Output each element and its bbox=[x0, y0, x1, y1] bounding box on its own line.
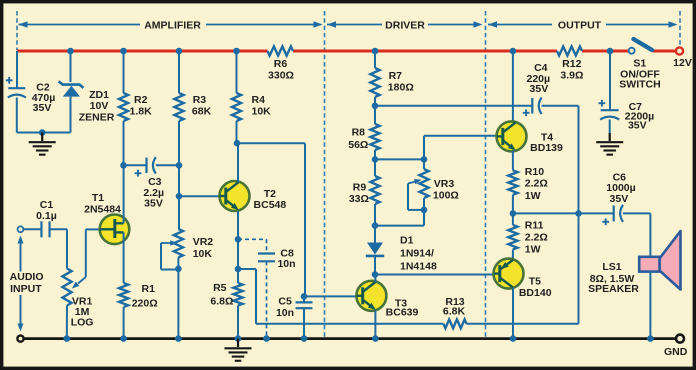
svg-text:R10: R10 bbox=[525, 166, 544, 178]
ground symbol (left) bbox=[29, 133, 56, 155]
junction VR3 bottom bbox=[421, 207, 428, 214]
svg-text:R6: R6 bbox=[274, 58, 288, 70]
wire C6 to speaker bbox=[623, 213, 650, 256]
wire ground rail (black) bbox=[25, 337, 676, 340]
svg-text:10n: 10n bbox=[277, 258, 295, 270]
svg-text:10n: 10n bbox=[276, 307, 294, 319]
svg-text:12V: 12V bbox=[673, 57, 692, 69]
wire T4 emitter to R10 bbox=[512, 151, 514, 171]
resistor R4 bbox=[232, 93, 271, 121]
svg-text:S1: S1 bbox=[633, 57, 646, 69]
section label DRIVER bbox=[327, 19, 483, 31]
wire R7 to bootstrap node bbox=[374, 97, 376, 124]
potentiometer VR2 bbox=[161, 229, 213, 270]
wire D1 to T3 collector node bbox=[374, 256, 376, 275]
svg-text:ZENER: ZENER bbox=[79, 112, 115, 124]
wire C5 to ground rail bbox=[303, 308, 305, 338]
junction R8/R9/VR3 node bbox=[372, 156, 379, 163]
terminal GND bbox=[664, 335, 688, 358]
capacitor C2 bbox=[6, 77, 55, 114]
zener diode ZD1 bbox=[59, 81, 115, 123]
svg-text:100Ω: 100Ω bbox=[433, 189, 459, 201]
svg-text:R2: R2 bbox=[134, 94, 148, 106]
wire T3 emitter to ground rail bbox=[374, 311, 376, 339]
svg-text:2.2Ω: 2.2Ω bbox=[525, 232, 548, 244]
svg-text:R3: R3 bbox=[193, 94, 207, 106]
transistor T4 (BD139) bbox=[497, 121, 564, 154]
wire R8 to R9 bbox=[374, 150, 376, 176]
wire R11 to T5 emitter bbox=[512, 249, 514, 259]
svg-text:D1: D1 bbox=[400, 234, 414, 246]
svg-text:1W: 1W bbox=[525, 190, 541, 202]
speaker LS1 bbox=[588, 231, 680, 295]
wire C2 to ground node bbox=[17, 98, 71, 133]
junction T3 emitter/ground rail bbox=[372, 335, 379, 342]
junction rail/R2 bbox=[120, 48, 127, 55]
junction VR2/ground rail bbox=[175, 335, 182, 342]
diode D1 bbox=[366, 234, 437, 272]
wire R2 to node A bbox=[123, 121, 125, 165]
terminal 12V bbox=[673, 47, 692, 69]
node A junction (R2/C3/T1 drain) bbox=[120, 162, 127, 169]
wire node to VR3 bbox=[375, 158, 424, 160]
wire VR1 wiper to T1 gate bbox=[72, 229, 100, 288]
wire T1 drain to node A bbox=[123, 165, 125, 223]
junction rail/R3 bbox=[176, 48, 183, 55]
junction rail/R4 bbox=[233, 48, 240, 55]
resistor R10 bbox=[508, 166, 548, 202]
wire T2 collector node to T3 base line bbox=[237, 143, 306, 296]
svg-text:R8: R8 bbox=[352, 127, 366, 139]
svg-text:ZD1: ZD1 bbox=[89, 89, 109, 101]
wire rail to R4 bbox=[236, 51, 238, 93]
junction output node bbox=[510, 210, 517, 217]
wire R10 to output node bbox=[512, 195, 514, 225]
svg-text:2.2Ω: 2.2Ω bbox=[525, 178, 548, 190]
wire rail to ZD1 bbox=[70, 51, 72, 82]
wire rail to C2 bbox=[16, 51, 18, 88]
junction C8/ground rail bbox=[263, 335, 270, 342]
section divider dashed driver/output bbox=[485, 11, 487, 337]
wire R8 node to T4 base bbox=[424, 136, 497, 160]
wire node A to C3 bbox=[124, 164, 147, 166]
svg-text:0.1µ: 0.1µ bbox=[36, 210, 57, 222]
wire VR3 bottom to D1 node bbox=[375, 198, 424, 226]
wire node C to VR2 bbox=[178, 196, 180, 229]
svg-text:T1: T1 bbox=[92, 192, 104, 204]
wire rail to R7 bbox=[374, 51, 376, 68]
svg-text:R5: R5 bbox=[213, 282, 227, 294]
transistor T2 (BC548) bbox=[220, 181, 287, 211]
resistor R9 bbox=[349, 176, 380, 205]
resistor R2 bbox=[119, 93, 152, 121]
svg-text:6.8Ω: 6.8Ω bbox=[210, 296, 233, 308]
svg-text:INPUT: INPUT bbox=[10, 283, 42, 295]
potentiometer VR1 bbox=[62, 269, 93, 329]
svg-text:10V: 10V bbox=[90, 100, 109, 112]
wire D1 node to T5 base bbox=[375, 274, 494, 276]
wire dashed C8 to ground rail bbox=[266, 261, 268, 338]
capacitor C1 bbox=[36, 199, 57, 237]
resistor R7 bbox=[370, 68, 413, 97]
svg-text:35V: 35V bbox=[144, 198, 163, 210]
wire ZD1 to ground node bbox=[70, 97, 72, 133]
svg-text:R4: R4 bbox=[252, 94, 266, 106]
wire input terminal to C1 bbox=[23, 228, 41, 230]
svg-text:LOG: LOG bbox=[71, 316, 94, 328]
wire +12V rail (red) bbox=[17, 50, 676, 53]
resistor R13 bbox=[443, 296, 467, 328]
junction bootstrap node (R7/R8/C4) bbox=[372, 103, 379, 110]
wire dashed to C8 bbox=[238, 239, 267, 253]
wire node C to T2 base bbox=[179, 195, 220, 197]
potentiometer VR3 bbox=[408, 159, 459, 210]
wire T2 collector bbox=[237, 143, 239, 182]
wire rail to R2 bbox=[123, 51, 125, 93]
svg-text:R12: R12 bbox=[562, 58, 581, 70]
resistor R6 bbox=[268, 46, 294, 81]
wire C5 node to T3 base bbox=[304, 295, 357, 297]
svg-text:68K: 68K bbox=[192, 105, 212, 117]
ground symbol (right) bbox=[596, 133, 623, 155]
svg-text:180Ω: 180Ω bbox=[388, 82, 414, 94]
wire rail to T4 collector bbox=[512, 51, 514, 122]
resistor R8 bbox=[348, 124, 379, 151]
wire R5 to ground rail bbox=[237, 306, 239, 339]
svg-text:1N914/: 1N914/ bbox=[400, 247, 434, 259]
wire R13 to output node bbox=[467, 213, 579, 323]
junction R5/ground rail bbox=[235, 335, 242, 342]
junction R5 top / feedback bbox=[235, 266, 242, 273]
wire R4 to T2 collector node bbox=[236, 121, 238, 143]
capacitor C3 bbox=[135, 157, 164, 209]
capacitor C8 bbox=[258, 247, 296, 270]
wire R3 to node B bbox=[178, 121, 180, 165]
section divider dashed amplifier/driver bbox=[324, 11, 326, 337]
junction rail/T4 collector bbox=[510, 48, 517, 55]
junction D1 anode node bbox=[372, 222, 379, 229]
svg-text:GND: GND bbox=[664, 346, 688, 358]
resistor R12 bbox=[557, 47, 583, 82]
junction rail/C7 bbox=[607, 48, 614, 55]
resistor R11 bbox=[508, 220, 548, 256]
wire C7 to ground symbol bbox=[609, 120, 611, 135]
wire speaker to ground rail bbox=[649, 272, 651, 339]
section divider dashed left bbox=[16, 11, 18, 50]
wire T2 emitter to R5 node bbox=[237, 211, 239, 283]
junction speaker/ground rail bbox=[647, 335, 654, 342]
svg-text:10K: 10K bbox=[193, 248, 213, 260]
svg-text:AMPLIFIER: AMPLIFIER bbox=[144, 19, 201, 31]
svg-text:35V: 35V bbox=[610, 193, 629, 205]
wire C3 to node B bbox=[156, 164, 179, 166]
junction ground node bbox=[39, 129, 46, 136]
svg-text:35V: 35V bbox=[530, 83, 549, 95]
switch S1 bbox=[619, 39, 660, 91]
junction C5/ground rail bbox=[301, 335, 308, 342]
section label AMPLIFIER bbox=[19, 19, 323, 31]
svg-text:SPEAKER: SPEAKER bbox=[588, 283, 639, 295]
junction rail/ZD1 bbox=[67, 48, 74, 55]
svg-text:LS1: LS1 bbox=[602, 261, 621, 273]
audio input label and arrow bbox=[10, 236, 44, 332]
svg-text:C1: C1 bbox=[40, 199, 54, 211]
junction VR2 wiper/bottom bbox=[175, 266, 182, 273]
audio input terminal (ground) bbox=[17, 336, 23, 342]
svg-text:BD139: BD139 bbox=[530, 142, 563, 154]
svg-text:220Ω: 220Ω bbox=[132, 298, 158, 310]
wire T1 source to R1 bbox=[123, 232, 125, 283]
capacitor C6 bbox=[602, 171, 635, 225]
svg-text:C5: C5 bbox=[278, 296, 292, 308]
wire R9 to D1 node bbox=[374, 204, 376, 243]
junction output riser bbox=[575, 210, 582, 217]
junction rail/R7 bbox=[372, 48, 379, 55]
svg-text:35V: 35V bbox=[628, 120, 647, 132]
resistor R3 bbox=[174, 93, 211, 121]
resistor R1 bbox=[119, 283, 158, 310]
section divider dashed right bbox=[679, 11, 681, 45]
svg-text:2N5484: 2N5484 bbox=[84, 204, 121, 216]
svg-text:BD140: BD140 bbox=[519, 287, 552, 299]
svg-text:56Ω: 56Ω bbox=[348, 139, 368, 151]
junction T5/ground rail bbox=[510, 335, 517, 342]
node B junction (R3/C3) bbox=[176, 162, 183, 169]
svg-text:OUTPUT: OUTPUT bbox=[558, 19, 602, 31]
svg-text:1W: 1W bbox=[525, 243, 541, 255]
junction R1/ground rail bbox=[120, 335, 127, 342]
transistor T5 (BD140) bbox=[494, 259, 552, 300]
svg-text:R1: R1 bbox=[142, 283, 156, 295]
svg-text:10K: 10K bbox=[252, 105, 272, 117]
wire VR1 to ground rail bbox=[66, 306, 68, 339]
resistor R5 bbox=[210, 282, 242, 307]
svg-text:6.8K: 6.8K bbox=[443, 305, 466, 317]
junction C5/T3 base bbox=[301, 293, 308, 300]
junction T2 collector/R4 bbox=[234, 140, 241, 147]
svg-text:BC639: BC639 bbox=[386, 307, 419, 319]
wire feedback R5 node to R13 bbox=[238, 269, 444, 324]
junction VR3 top bbox=[421, 156, 428, 163]
wire R1 to ground rail bbox=[123, 307, 125, 339]
capacitor C7 bbox=[599, 100, 655, 132]
wire T5 collector to ground rail bbox=[512, 288, 514, 338]
wire T3 collector bbox=[374, 275, 376, 283]
svg-text:R7: R7 bbox=[389, 70, 403, 82]
wire rail to R3 bbox=[178, 51, 180, 93]
capacitor C5 bbox=[276, 296, 313, 319]
transistor T1 (JFET 2N5484) bbox=[84, 192, 129, 244]
capacitor C4 bbox=[523, 62, 550, 116]
svg-text:3.9Ω: 3.9Ω bbox=[560, 69, 583, 81]
junction T2 emitter/C8 bbox=[235, 236, 242, 243]
junction VR1/ground rail bbox=[64, 335, 71, 342]
ground symbol (center) bbox=[225, 339, 252, 361]
junction node C (R3/T2 base) bbox=[176, 193, 183, 200]
wire bootstrap node to C4 bbox=[375, 105, 532, 107]
wire VR2 to ground rail bbox=[177, 257, 179, 338]
svg-text:T5: T5 bbox=[529, 276, 541, 288]
section label OUTPUT bbox=[488, 19, 678, 31]
wire output node to C6 bbox=[513, 212, 614, 214]
junction D1 cathode node (T3 collector/T5 base) bbox=[372, 271, 379, 278]
wire rail to C7 bbox=[609, 51, 611, 110]
audio input terminal (hot) bbox=[18, 226, 24, 232]
svg-text:SWITCH: SWITCH bbox=[619, 79, 660, 91]
svg-text:R11: R11 bbox=[525, 220, 544, 232]
svg-text:35V: 35V bbox=[33, 102, 52, 114]
svg-text:330Ω: 330Ω bbox=[268, 70, 294, 82]
svg-text:VR3: VR3 bbox=[434, 178, 455, 190]
svg-text:VR2: VR2 bbox=[193, 236, 214, 248]
svg-text:BC548: BC548 bbox=[254, 199, 287, 211]
svg-text:1.8K: 1.8K bbox=[130, 105, 153, 117]
svg-text:AUDIO: AUDIO bbox=[10, 271, 44, 283]
svg-text:1N4148: 1N4148 bbox=[400, 260, 437, 272]
transistor T3 (BC639) bbox=[356, 281, 418, 319]
svg-text:DRIVER: DRIVER bbox=[385, 19, 425, 31]
wire C4 to output riser bbox=[542, 106, 579, 214]
wire node B to node C bbox=[178, 165, 180, 196]
wire C1 to VR1 bbox=[50, 229, 67, 268]
svg-text:33Ω: 33Ω bbox=[349, 193, 369, 205]
svg-text:R9: R9 bbox=[353, 182, 367, 194]
